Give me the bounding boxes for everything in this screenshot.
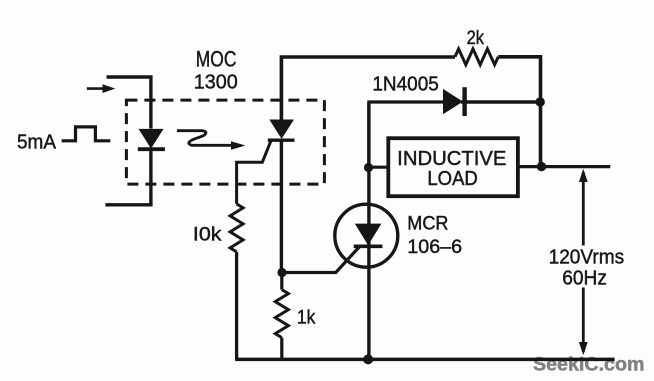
svg-text:120Vrms: 120Vrms	[549, 247, 625, 269]
resistor 2k	[455, 49, 498, 65]
svg-text:1N4005: 1N4005	[372, 74, 438, 96]
wire: load right lead	[518, 165, 542, 168]
wire: MCR gate lead	[282, 247, 359, 273]
node: MCR cathode / bottom rail junction dot	[363, 354, 373, 364]
wire: top rail from photo-SCR anode to 2k	[281, 57, 455, 120]
input current arrow	[87, 84, 116, 93]
svg-text:1k: 1k	[297, 308, 316, 329]
5mA pulse waveform	[62, 127, 111, 141]
wire: LED cathode lead to left terminal	[105, 149, 150, 205]
wire: bottom rail overlay through watermark	[235, 358, 614, 362]
light transmission squiggle arrow	[177, 131, 246, 150]
resistor 1k with leads	[280, 273, 283, 290]
svg-text:106–6: 106–6	[407, 237, 462, 258]
svg-text:60Hz: 60Hz	[562, 268, 607, 290]
white backing for voltage labels	[545, 246, 629, 288]
SCR MCR 106-6 triangle and bar	[354, 224, 383, 247]
inductive load box	[388, 138, 518, 196]
svg-text:SeekIC.com: SeekIC.com	[533, 354, 645, 375]
dimension arrow line 120Vrms	[582, 172, 585, 352]
node: load-left junction dot	[364, 163, 373, 172]
svg-text:5mA: 5mA	[17, 132, 57, 154]
wire: 10k bottom lead to bottom rail corner	[235, 252, 238, 360]
optocoupler MOC 1300 dashed box	[126, 100, 324, 184]
wire: photo-SCR cathode lead down to gate node	[280, 140, 283, 272]
wire: 2k to right corner, down right branch	[498, 57, 540, 167]
resistor 10k	[230, 204, 243, 252]
svg-text:MOC: MOC	[196, 47, 237, 72]
LED (emitter diode)	[138, 129, 165, 149]
wire: right rail stub	[542, 165, 611, 168]
node: load-right junction dot	[537, 162, 546, 171]
node: diode-2k junction dot	[536, 97, 545, 106]
wire: input top lead with corner	[107, 77, 151, 129]
svg-text:INDUCTIVE: INDUCTIVE	[397, 148, 506, 170]
node: gate junction dot	[277, 268, 286, 277]
diode 1N4005	[443, 87, 465, 116]
wire: 1N4005 branch	[369, 102, 443, 166]
dimension arrowheads	[579, 169, 588, 182]
photo-SCR (detector)	[268, 120, 295, 141]
SCR MCR 106-6 circle	[335, 204, 398, 267]
wire: photo-SCR gate lead (to 10k)	[237, 141, 271, 204]
svg-text:MCR: MCR	[407, 213, 448, 234]
wire: load left lead	[369, 166, 389, 169]
svg-text:2k: 2k	[467, 28, 485, 49]
wire: MCR anode vertical (load-left branch down to bottom rail)	[367, 102, 370, 359]
svg-text:1300: 1300	[194, 72, 238, 94]
svg-text:I0k: I0k	[193, 224, 222, 245]
svg-text:LOAD: LOAD	[427, 168, 477, 190]
